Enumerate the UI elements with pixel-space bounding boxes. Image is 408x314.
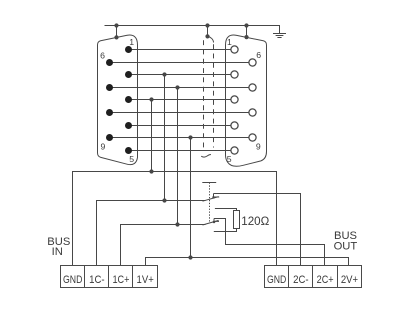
svg-text:1: 1	[227, 37, 232, 47]
svg-text:1V+: 1V+	[137, 274, 154, 286]
svg-text:2C-: 2C-	[293, 274, 309, 286]
svg-text:1C-: 1C-	[89, 274, 105, 286]
svg-text:2V+: 2V+	[341, 274, 358, 286]
svg-text:GND: GND	[267, 274, 286, 286]
svg-text:5: 5	[227, 154, 232, 164]
svg-text:9: 9	[100, 141, 105, 151]
svg-text:1: 1	[129, 37, 134, 47]
svg-text:5: 5	[129, 154, 134, 164]
svg-text:IN: IN	[52, 246, 63, 258]
svg-text:2C+: 2C+	[317, 274, 334, 286]
svg-text:6: 6	[256, 50, 261, 60]
svg-text:9: 9	[256, 142, 261, 152]
svg-text:1C+: 1C+	[112, 274, 129, 286]
svg-text:120Ω: 120Ω	[241, 214, 269, 228]
svg-text:GND: GND	[63, 274, 82, 286]
svg-text:6: 6	[100, 50, 105, 60]
svg-text:OUT: OUT	[334, 241, 358, 253]
